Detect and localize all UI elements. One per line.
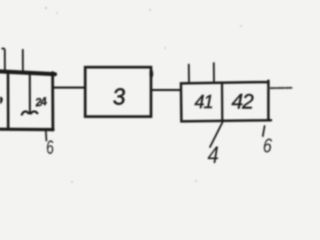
- box 4 outline: [181, 81, 271, 122]
- scan speckles: [45, 7, 242, 183]
- tank 2 bottom edge: [0, 128, 53, 132]
- partial label at left edge: [0, 97, 3, 104]
- label 6 (left): [45, 136, 55, 158]
- tank 2 divider wall: [7, 73, 10, 129]
- wire tank to box 3: [53, 87, 85, 89]
- stirrer impeller squiggle: [22, 111, 38, 114]
- label 3: [112, 83, 127, 110]
- label 4: [208, 141, 219, 168]
- tank 2 top edge: [0, 71, 55, 74]
- lead wire top-left with hook: [2, 48, 5, 71]
- svg-text:6: 6: [262, 134, 272, 157]
- svg-text:41: 41: [195, 92, 213, 112]
- output wire right: [269, 87, 292, 89]
- tank 2 right edge: [51, 73, 54, 131]
- lead wire top of 42: [213, 63, 215, 83]
- svg-text:3: 3: [112, 83, 127, 110]
- ink blob on box 3 right edge: [149, 69, 153, 78]
- tick below 42: [263, 126, 265, 136]
- stirrer shaft: [29, 74, 31, 113]
- leader line for 4: [210, 122, 223, 147]
- label 24: [34, 96, 49, 110]
- label 42: [232, 91, 255, 114]
- label 6 (right): [262, 134, 272, 157]
- svg-text:4: 4: [208, 141, 219, 168]
- lead wire top of 41: [188, 65, 190, 84]
- label 41: [195, 92, 213, 112]
- box 4 divider: [221, 83, 224, 121]
- lead wire top-second: [22, 50, 24, 71]
- box 3: [85, 67, 151, 116]
- wire box 3 to box 4: [151, 89, 181, 91]
- drain tick below tank: [45, 132, 48, 141]
- svg-text:42: 42: [232, 91, 255, 114]
